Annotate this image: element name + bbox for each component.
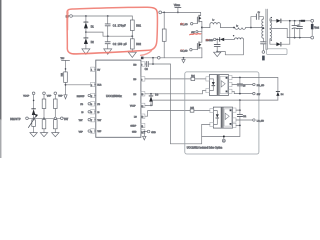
svg-text:HG: HG — [133, 65, 136, 67]
bulk input component — [162, 12, 166, 57]
svg-text:TST: TST — [79, 120, 84, 122]
wire U2 OUT to HO_GD — [232, 83, 265, 87]
svg-text:VSP: VSP — [47, 96, 52, 98]
svg-text:LO_GD: LO_GD — [257, 120, 265, 122]
ground branch B — [40, 133, 47, 137]
preload resistor Vout — [311, 22, 319, 36]
svg-text:8: 8 — [141, 64, 142, 66]
capacitor bootstrap U2 — [237, 78, 245, 94]
terminal VCCP branch A — [23, 92, 35, 98]
rail Vbus — [174, 3, 181, 14]
svg-text:C1 270pF: C1 270pF — [113, 25, 126, 28]
svg-text:FB: FB — [80, 104, 83, 106]
ground HSGND — [214, 52, 221, 56]
pin boxes U3 right — [233, 108, 237, 128]
node cap1 top — [294, 20, 296, 22]
svg-text:10: 10 — [141, 94, 143, 96]
svg-text:C2 150 pF: C2 150 pF — [113, 43, 128, 46]
pin BLR (left 2) — [91, 82, 102, 87]
wire primary gnd rail — [141, 57, 202, 60]
svg-text:Vbus: Vbus — [174, 3, 181, 7]
svg-text:GNDP: GNDP — [130, 126, 136, 128]
LED U2 — [209, 79, 214, 91]
node junction R mid — [131, 35, 133, 37]
wire D-mid jog to middle rail — [86, 32, 132, 36]
pin VCCP (right 4) — [130, 103, 145, 108]
terminal TST tie — [61, 117, 69, 121]
pin boxes U2 right — [229, 75, 233, 93]
transistor Q1 high-side MOSFET — [180, 12, 202, 27]
svg-text:Cr: Cr — [258, 11, 261, 14]
svg-text:TST: TST — [64, 119, 69, 121]
capacitor HS bootstrap gnd — [214, 39, 220, 52]
screenshot left border — [0, 0, 2, 158]
wire HS pin to driver1 anode — [145, 76, 206, 81]
node junction C mid — [107, 35, 109, 37]
svg-text:HS: HS — [133, 79, 136, 81]
pin HB (right 3) — [133, 92, 145, 97]
small note box secondary — [267, 49, 287, 55]
svg-text:VCCP: VCCP — [23, 96, 30, 98]
node junction 5V/C1 — [107, 15, 109, 17]
gate driver U2 body — [209, 75, 228, 96]
wire U3 gnd loop — [202, 124, 240, 136]
diode D5 rectifier top — [276, 19, 310, 23]
transistor Q2 low-side MOSFET — [181, 28, 202, 58]
svg-text:LG: LG — [134, 116, 137, 118]
capacitor U3 vcc — [237, 115, 246, 137]
wire U3 VCC — [236, 100, 241, 114]
wire BM/STP row — [28, 117, 60, 119]
node junction 5V/D1 — [85, 15, 87, 17]
resistor branch B lower — [42, 118, 46, 132]
wire U2 VCC bootstrap — [232, 78, 278, 92]
svg-text:D4: D4 — [281, 94, 284, 96]
node SW — [201, 27, 203, 29]
pin TST (left 6) with net tie — [79, 118, 102, 123]
pin HS (right 2) — [133, 77, 145, 82]
pin boxes U3 left — [210, 109, 214, 127]
capacitor primary sense — [261, 42, 267, 51]
svg-text:HSGND: HSGND — [206, 40, 214, 42]
svg-text:BLR: BLR — [97, 85, 101, 87]
svg-text:HB: HB — [133, 94, 136, 96]
svg-text:R61: R61 — [136, 25, 141, 28]
node Lr/Np junction — [233, 27, 235, 29]
capacitor Cout2 — [297, 21, 302, 38]
svg-text:3: 3 — [91, 104, 92, 106]
capacitor C3 on HG pin — [145, 61, 171, 71]
diode D4 bootstrap — [276, 91, 284, 100]
pin IS (left 5) with net tie — [81, 110, 100, 115]
node D6 join — [289, 20, 291, 22]
wire 5V top rail — [72, 15, 132, 17]
svg-text:4: 4 — [91, 131, 92, 133]
svg-text:7: 7 — [91, 120, 92, 122]
node cap2 bottom — [299, 37, 301, 39]
svg-text:D2: D2 — [91, 41, 95, 44]
terminal primary sense — [262, 51, 265, 61]
terminal Vout- — [311, 36, 314, 39]
red mark at HSGND label — [206, 39, 209, 41]
svg-text:BM/STP: BM/STP — [10, 118, 21, 121]
ground branch A — [30, 133, 37, 137]
gnd arrow branch D — [64, 95, 67, 99]
svg-text:14: 14 — [141, 132, 143, 134]
capacitor C1 270pF — [105, 16, 126, 36]
node cap1 bottom — [294, 37, 296, 39]
IC U1 UCC25660x body — [96, 60, 141, 137]
svg-text:UCC25660x: UCC25660x — [106, 94, 122, 98]
resistor branch D — [62, 72, 68, 95]
svg-text:C9: C9 — [243, 85, 245, 87]
diode D1 — [84, 16, 95, 32]
winding Lm scallops — [233, 35, 243, 39]
svg-text:VSP: VSP — [79, 131, 84, 133]
svg-text:IS: IS — [81, 112, 84, 114]
isolated drive option box — [185, 72, 259, 154]
red mark at HO_GD label — [180, 23, 184, 25]
wire HG gnd return vertical — [170, 64, 201, 144]
pin VSP (left 7) with net tie — [79, 129, 102, 134]
diode D2 — [84, 32, 95, 49]
terminal BM/STP — [10, 117, 28, 121]
svg-text:TST: TST — [97, 120, 102, 122]
svg-text:9: 9 — [141, 79, 142, 81]
node D1/D2 junction — [85, 31, 87, 33]
resistor R61 — [130, 16, 141, 36]
wire VCCP rail — [145, 100, 240, 105]
svg-text:Lr: Lr — [212, 20, 214, 22]
diode D branch A — [32, 95, 36, 119]
potentiometer branch A — [28, 114, 38, 132]
svg-text:R62: R62 — [136, 43, 141, 46]
pin GND (right 7) — [132, 129, 145, 134]
red mark at LO_GD label — [180, 49, 184, 51]
ground under R62 — [128, 52, 136, 57]
node gnd rail arrow tap — [182, 57, 185, 63]
svg-text:R24: R24 — [191, 76, 194, 78]
transformer T1 secondary — [270, 17, 287, 44]
red annotation oval around snubber — [67, 7, 157, 55]
resistor branch C lower — [54, 119, 58, 132]
terminal SW — [191, 31, 202, 34]
svg-text:11: 11 — [141, 126, 143, 128]
svg-text:BM/STP: BM/STP — [77, 96, 85, 98]
svg-text:HO_GD: HO_GD — [180, 24, 188, 26]
node bootstrap cap top — [239, 77, 241, 79]
node C3/gnd link — [152, 58, 154, 65]
svg-text:5: 5 — [91, 96, 92, 98]
pin boxes U2 left — [206, 77, 210, 93]
diode D6 rectifier bottom — [276, 21, 289, 46]
svg-text:R25: R25 — [190, 107, 193, 109]
svg-text:2: 2 — [91, 85, 92, 87]
svg-text:D3: D3 — [155, 94, 159, 96]
svg-text:LO_GD: LO_GD — [181, 50, 189, 52]
svg-text:GND: GND — [132, 132, 137, 134]
svg-text:TBJ: TBJ — [61, 58, 65, 60]
node gnd rail / C3 — [152, 57, 154, 59]
capacitor Cout1 polarized — [292, 21, 300, 38]
node Cr branch junction — [250, 27, 252, 29]
svg-text:VCCP: VCCP — [130, 106, 136, 108]
ground under C2 — [104, 49, 112, 54]
svg-text:FB: FB — [97, 104, 100, 106]
pin BM/STP (left 3) with net tie — [77, 93, 96, 98]
wire output bottom rail — [287, 37, 311, 39]
terminal VSP branch C — [54, 92, 63, 98]
svg-text:C11: C11 — [243, 116, 246, 118]
pin RV (left 1) — [91, 67, 101, 72]
diode clamp on HSGND wire — [220, 38, 235, 42]
diode D3 — [149, 93, 159, 106]
pin HG (right 1) — [133, 62, 145, 67]
wire Lm loop — [217, 39, 243, 54]
svg-text:Lr: Lr — [236, 25, 238, 27]
svg-text:C3: C3 — [145, 68, 149, 71]
wire bootstrap return to VCCP — [239, 99, 278, 101]
pin GNDP (right 6) — [130, 123, 145, 128]
terminal VSP branch B — [43, 92, 52, 98]
svg-text:GND: GND — [151, 132, 156, 134]
node junction B row — [43, 117, 45, 119]
resistor branch B upper — [42, 95, 46, 119]
svg-text:HO_GD: HO_GD — [257, 85, 265, 87]
svg-text:1: 1 — [91, 70, 92, 72]
ground branch C — [52, 133, 59, 137]
resistor R62 — [130, 36, 141, 52]
svg-text:SW: SW — [257, 94, 260, 96]
ground under D2 — [82, 49, 90, 54]
wire U2 VEE to SW — [232, 91, 260, 96]
wire U3 VEE — [236, 125, 241, 127]
svg-text:VSP: VSP — [97, 131, 102, 133]
node chassis gnd — [222, 136, 225, 143]
gate driver U3 body — [213, 107, 232, 128]
driver stage U3 — [224, 109, 232, 126]
resistor branch C upper — [54, 95, 58, 118]
svg-text:R11: R11 — [62, 73, 64, 76]
svg-text:12: 12 — [141, 106, 143, 108]
svg-text:D1: D1 — [91, 26, 95, 29]
terminal HSGND — [206, 38, 220, 42]
ferrite bead output — [301, 20, 305, 22]
svg-text:13: 13 — [141, 117, 143, 119]
node junction A row — [33, 117, 35, 119]
svg-text:Vout: Vout — [314, 27, 319, 30]
transformer T1 core — [266, 9, 267, 49]
terminal Vout+ — [311, 19, 314, 22]
winding Np scallops — [235, 25, 264, 29]
LED U3 — [213, 111, 218, 125]
terminal Vbus+ — [159, 11, 201, 14]
crossing hop C row — [54, 117, 56, 119]
svg-text:UCC23513 Isolated Drive Option: UCC23513 Isolated Drive Option — [187, 147, 223, 150]
wire HB pin to driver1 cathode — [145, 91, 206, 94]
red scribble under SW — [190, 34, 201, 35]
capacitor Cr — [251, 11, 262, 28]
node cap2 top — [299, 20, 301, 22]
wire GND pin tie — [143, 130, 157, 140]
rail TBJ branch D — [61, 58, 70, 72]
svg-text:IS: IS — [97, 112, 100, 114]
terminal 5V — [66, 15, 73, 19]
svg-text:VSP: VSP — [58, 96, 63, 98]
pin LG (right 5) — [134, 114, 145, 119]
svg-text:6: 6 — [91, 112, 92, 114]
svg-text:RV: RV — [97, 70, 100, 72]
wire LG pin to driver2 anode — [145, 107, 210, 116]
transformer T1 primary — [262, 17, 265, 42]
pin FB (left 4) with net tie — [80, 102, 100, 107]
driver stage U2 — [220, 76, 228, 93]
wire branch D to BLR pin — [66, 84, 91, 86]
wire U3 OUT to LO_GD — [236, 119, 264, 123]
inductor Lr — [202, 20, 234, 28]
capacitor C2 150pF — [105, 36, 127, 49]
